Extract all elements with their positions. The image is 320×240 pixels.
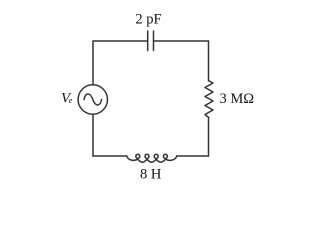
resistor R1 zigzag <box>205 81 213 118</box>
wire top-left horizontal <box>93 40 148 42</box>
svg-text:3 MΩ: 3 MΩ <box>220 91 255 107</box>
svg-text:8 H: 8 H <box>140 167 162 183</box>
wire top-right horizontal <box>154 40 209 42</box>
wire bottom-right horizontal <box>177 155 209 157</box>
source V_e sine wave <box>84 94 102 105</box>
svg-text:2 pF: 2 pF <box>135 11 161 27</box>
wire right vertical lower <box>208 118 210 157</box>
capacitor C1 right plate <box>153 31 155 51</box>
svg-text:Ve: Ve <box>61 90 73 106</box>
wire left vertical lower <box>92 114 94 156</box>
wire right vertical upper <box>208 41 210 81</box>
capacitor C1 left plate <box>147 31 149 51</box>
wire bottom-left horizontal <box>93 155 127 157</box>
inductor L1 coil <box>127 154 177 162</box>
source V_e circle <box>78 85 107 114</box>
wire left vertical upper <box>92 41 94 85</box>
